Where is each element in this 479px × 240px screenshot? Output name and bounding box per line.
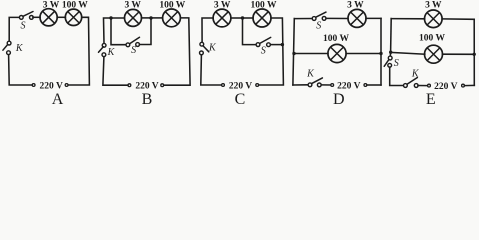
lamp 3W (E) xyxy=(425,10,443,28)
wire E right edge xyxy=(473,19,475,85)
svg-text:3 W: 3 W xyxy=(347,1,364,11)
node junction left (B) xyxy=(109,16,112,19)
svg-text:220 V: 220 V xyxy=(434,82,457,92)
node junction right (E) xyxy=(473,53,476,56)
svg-text:220 V: 220 V xyxy=(229,81,252,91)
switch S (B) xyxy=(126,37,140,46)
svg-text:3 W: 3 W xyxy=(43,1,60,11)
svg-text:S: S xyxy=(131,45,136,56)
svg-text:K: K xyxy=(411,68,420,79)
lamp 100W (E) xyxy=(425,45,443,63)
wire B top-left corner xyxy=(104,18,125,43)
wire D bottom-left xyxy=(293,84,308,86)
source terminal right (B) xyxy=(161,84,164,87)
node junction left (E) xyxy=(389,51,392,54)
svg-text:3 W: 3 W xyxy=(124,1,141,11)
source terminal left (A) xyxy=(32,84,35,87)
svg-text:K: K xyxy=(208,43,217,54)
lamp 100W (A) xyxy=(65,9,81,25)
wire middle left (E) xyxy=(391,52,425,54)
switch K (C) xyxy=(200,42,209,55)
source terminal right (E) xyxy=(462,84,465,87)
wire C right side xyxy=(259,18,284,85)
wire B bypass drop xyxy=(111,18,126,45)
svg-text:100 W: 100 W xyxy=(62,1,88,11)
lamp 3W (C) xyxy=(213,9,231,27)
lamp 3W (A) xyxy=(40,9,57,26)
svg-text:3 W: 3 W xyxy=(214,1,231,11)
svg-text:220 V: 220 V xyxy=(135,81,158,91)
wire E bottom-right xyxy=(465,84,475,86)
wire B bottom-left xyxy=(103,57,128,85)
switch S (A) xyxy=(19,12,33,20)
svg-text:100 W: 100 W xyxy=(251,1,277,11)
switch S (E) xyxy=(384,56,392,67)
switch S (C) xyxy=(256,37,271,46)
node junction mid (B) xyxy=(149,16,152,19)
wire E bottom-left xyxy=(390,67,404,85)
wire middle left (D) xyxy=(294,53,328,55)
svg-text:C: C xyxy=(235,91,246,105)
wire junction to lamp2 (C) xyxy=(243,17,254,19)
wire E top-right xyxy=(442,18,474,20)
lamp 100W (D) xyxy=(328,44,346,62)
wire D left edge xyxy=(293,19,294,85)
svg-text:A: A xyxy=(52,91,64,105)
source terminal left (D) xyxy=(331,84,334,87)
wire D right edge xyxy=(380,18,382,85)
wire middle right (D) xyxy=(346,53,381,55)
svg-text:S: S xyxy=(261,46,266,57)
source terminal right (D) xyxy=(364,84,367,87)
switch K (E) xyxy=(404,78,419,88)
switch K (B) xyxy=(99,43,107,56)
svg-text:100 W: 100 W xyxy=(419,34,445,44)
wire lamp to lamp (A) xyxy=(57,16,65,18)
svg-text:3 W: 3 W xyxy=(425,1,442,11)
lamp 100W (C) xyxy=(253,9,271,27)
svg-text:B: B xyxy=(142,91,153,105)
svg-text:K: K xyxy=(107,47,116,58)
wire lamp1 to junction (B) xyxy=(142,17,150,19)
wire junction to lamp2 (B) xyxy=(153,17,163,19)
wire A bottom-left xyxy=(9,55,32,85)
wire C bottom-left xyxy=(201,55,222,85)
wire lamp1 to junction (C) xyxy=(231,17,243,19)
lamp 100W (B) xyxy=(163,9,181,27)
node junction right (C) xyxy=(281,43,284,46)
node junction top (C) xyxy=(241,16,244,19)
svg-text:100 W: 100 W xyxy=(323,34,349,44)
wire C top-left corner xyxy=(202,18,213,42)
source terminal left (B) xyxy=(128,84,131,87)
switch S (D) xyxy=(312,12,326,20)
wire D top-left xyxy=(294,18,312,20)
svg-text:K: K xyxy=(306,68,315,79)
wire D bottom-right xyxy=(367,84,381,86)
wire K to terminal (D) xyxy=(321,84,331,86)
wire K to terminal (E) xyxy=(418,85,428,87)
wire E left edge xyxy=(390,19,393,53)
wire A right side xyxy=(68,17,89,85)
node junction left (D) xyxy=(292,52,295,55)
svg-text:E: E xyxy=(426,91,436,105)
wire S to lamp (A) xyxy=(33,16,40,18)
svg-text:S: S xyxy=(21,20,26,31)
source terminal right (A) xyxy=(65,84,68,87)
wire lamp to corner (D) xyxy=(366,17,381,19)
switch K (A) xyxy=(3,41,11,54)
lamp 3W (B) xyxy=(125,9,142,26)
wire E top xyxy=(391,18,424,20)
svg-text:S: S xyxy=(316,21,321,32)
source terminal left (E) xyxy=(428,84,431,87)
wire S to lamp (D) xyxy=(326,17,348,19)
wire A top-left corner xyxy=(9,17,19,41)
switch K (D) xyxy=(308,78,322,87)
wire B bypass rise xyxy=(140,18,152,45)
svg-text:100 W: 100 W xyxy=(159,1,185,11)
lamp 3W (D) xyxy=(348,9,366,27)
source terminal left (C) xyxy=(222,84,225,87)
wire B right side xyxy=(164,18,190,85)
svg-text:220 V: 220 V xyxy=(337,81,360,91)
svg-text:D: D xyxy=(333,91,345,105)
wire S to right edge (C) xyxy=(270,44,282,46)
svg-text:220 V: 220 V xyxy=(40,81,63,91)
wire C bypass drop xyxy=(243,18,257,45)
node junction right (D) xyxy=(379,52,382,55)
source terminal right (C) xyxy=(256,84,259,87)
svg-text:S: S xyxy=(394,58,399,69)
svg-text:K: K xyxy=(15,43,24,54)
wire middle right (E) xyxy=(443,53,475,55)
wire junction to switch (E) xyxy=(389,52,391,56)
